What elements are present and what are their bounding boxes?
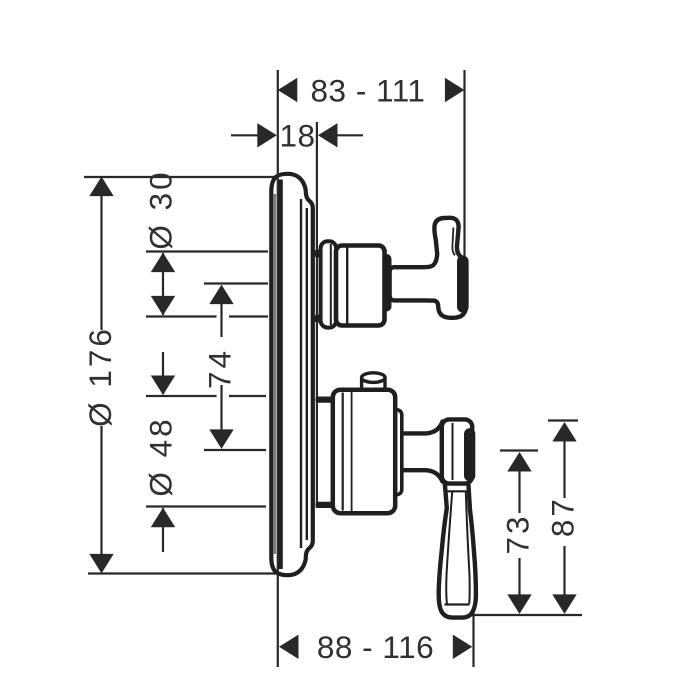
extension line B (plate face x=316.9) bbox=[316, 122, 318, 508]
arrow 83-111 left bbox=[278, 78, 298, 102]
dim 18 right tail bbox=[337, 134, 363, 136]
tick dia48 bottom bbox=[146, 505, 266, 507]
dim dia30 shaft bbox=[162, 253, 164, 315]
svg-text:Ø 30: Ø 30 bbox=[143, 169, 179, 249]
lever knob disc bbox=[442, 419, 472, 483]
lever left highlight bbox=[446, 492, 452, 604]
arrow 87 up bbox=[552, 422, 576, 442]
plate gray strip bbox=[274, 194, 276, 554]
arrow 73 down bbox=[507, 594, 531, 614]
tick 74 top bbox=[204, 282, 268, 284]
upper mounting tab top bbox=[315, 250, 325, 258]
diverter stub bbox=[362, 378, 385, 394]
upper flange bbox=[321, 241, 337, 327]
tick 74 bottom bbox=[204, 449, 266, 451]
lever right highlight bbox=[466, 492, 470, 604]
arrow 73 up bbox=[507, 452, 531, 472]
upper handle front-arm crescent bbox=[457, 256, 469, 313]
extension line D (lever plane x=473.5) bbox=[472, 612, 474, 667]
arrow 18 left bbox=[257, 123, 277, 147]
tick 73 top bbox=[500, 449, 538, 451]
lower stem+flare bbox=[396, 422, 443, 482]
plate back rim seam bbox=[278, 180, 283, 570]
extension line A (wall plane x=277.8) bbox=[277, 70, 279, 667]
upper mounting tab bottom bbox=[315, 315, 325, 323]
wall extension line over plate bbox=[277, 174, 279, 572]
svg-text:74: 74 bbox=[202, 348, 238, 389]
tick 73/87 bottom bbox=[472, 614, 582, 616]
extension line C (handle face x=466) bbox=[463, 70, 465, 256]
lever bottom seam bbox=[445, 603, 470, 605]
arrow dia176 up bbox=[89, 177, 113, 197]
dim 87 shaft bbox=[563, 441, 565, 595]
arrow dia30 up bbox=[151, 253, 175, 273]
escutcheon plate outline bbox=[271, 174, 313, 575]
tick dia48 top bbox=[146, 395, 217, 397]
lower skirt seam 1 bbox=[342, 393, 344, 511]
arrow 74 up bbox=[209, 285, 233, 305]
plate front seam bbox=[300, 199, 302, 548]
svg-text:88 - 116: 88 - 116 bbox=[317, 629, 434, 665]
arrow dia48 down-at-top bbox=[151, 376, 175, 396]
arrow dia48 up-at-bottom bbox=[151, 508, 175, 528]
dim 18 left tail bbox=[231, 134, 258, 136]
lower cartridge ring bbox=[392, 410, 402, 495]
lower skirt bbox=[333, 390, 395, 514]
dim 74 shaft bbox=[220, 303, 222, 430]
tick dia30 bottom bbox=[146, 315, 217, 317]
tick dia176 bottom bbox=[88, 572, 276, 574]
tick dia30 top bbox=[146, 250, 268, 252]
dim dia48 shafts bbox=[162, 352, 164, 552]
arrow 18 right bbox=[318, 123, 338, 147]
upper handle stem+crossbar bbox=[390, 218, 467, 318]
upper cylinder seam bbox=[346, 248, 348, 324]
svg-text:87: 87 bbox=[545, 496, 581, 537]
svg-text:Ø 48: Ø 48 bbox=[143, 416, 179, 496]
svg-text:18: 18 bbox=[279, 118, 315, 154]
tick 87 top bbox=[548, 419, 578, 421]
arrow 74 down bbox=[209, 429, 233, 449]
lower mounting tab top bbox=[316, 397, 334, 403]
upper cartridge ring bbox=[379, 254, 392, 312]
lever seam 2 bbox=[445, 490, 469, 492]
lower disc crescent bbox=[464, 428, 475, 481]
arrow dia176 down bbox=[89, 554, 113, 574]
dim 73 shaft bbox=[518, 471, 520, 595]
upper cylinder bbox=[336, 246, 385, 326]
lower skirt seam 2 bbox=[351, 392, 353, 511]
plate front face inner line bbox=[306, 208, 308, 540]
disc inner line bbox=[452, 423, 454, 480]
tick dia176 top bbox=[84, 176, 276, 178]
dim dia176 shaft bbox=[100, 195, 102, 554]
arrow 87 down bbox=[552, 594, 576, 614]
lower lever arm bbox=[439, 481, 476, 618]
upper flange seam bbox=[330, 244, 332, 325]
arrow 88-116 left bbox=[279, 635, 299, 659]
svg-text:83 - 111: 83 - 111 bbox=[311, 73, 426, 109]
svg-text:Ø 176: Ø 176 bbox=[82, 326, 118, 427]
arrow 88-116 right bbox=[453, 635, 473, 659]
lower mounting tab bottom bbox=[316, 502, 334, 508]
upper crossbar inner line bbox=[452, 228, 455, 256]
svg-text:73: 73 bbox=[500, 513, 536, 554]
arrow 83-111 right bbox=[445, 78, 465, 102]
arrow dia30 down bbox=[151, 296, 175, 316]
